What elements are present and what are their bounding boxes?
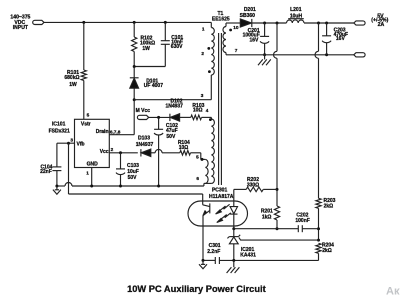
wire secondary ground rail [203,259,215,261]
svg-text:1W: 1W [69,82,77,88]
transformer secondary winding pins 10-7 [225,23,227,27]
wire opto emitter to ground rail [202,226,204,260]
svg-text:Vstr: Vstr [81,121,91,127]
wire L201 to output [304,22,354,24]
ground symbol under opto [202,260,204,264]
polarity dot primary upper [207,47,210,50]
wire KA431 ref [239,237,319,240]
svg-text:4: 4 [206,108,209,113]
svg-text:2: 2 [201,51,204,56]
wire feedback sense line 1 [276,23,278,51]
node C203/return wire [325,53,328,56]
wire drain to transformer pin 3 [134,99,211,101]
svg-text:2A: 2A [378,22,385,28]
svg-text:IC101: IC101 [52,121,66,127]
node C201/return wire [263,53,266,56]
svg-text:1: 1 [86,170,89,175]
wire Vcc pin 2 [109,152,138,154]
wire secondary return [226,54,354,56]
svg-text:2kΩ: 2kΩ [322,248,332,254]
svg-text:630V: 630V [171,44,183,50]
svg-text:EE1625: EE1625 [212,16,230,22]
svg-text:Drain: Drain [96,129,109,135]
svg-text:D103: D103 [138,135,150,141]
wire D201 to L201 [252,22,287,24]
svg-text:1N4937: 1N4937 [136,142,154,148]
node top rail / R102 [133,21,136,24]
svg-text:2.2nF: 2.2nF [207,249,220,255]
node R201/C202 wire [276,227,279,230]
wire IC101 pin 1 to ground [91,168,93,187]
svg-text:16V: 16V [336,36,346,42]
svg-text:1N4937: 1N4937 [165,103,183,109]
svg-text:Vfb: Vfb [77,141,85,147]
svg-text:Vcc: Vcc [100,149,109,155]
wire hop over C102 line [155,149,162,152]
svg-text:6: 6 [196,176,199,181]
node rail/R203 line [317,22,320,25]
polarity dot secondary [229,29,232,32]
node LED cathode / comp net [232,227,235,230]
svg-text:50V: 50V [128,175,138,181]
node divider/ref wire [317,239,320,242]
transformer aux winding pins 4-5-6 [210,117,212,119]
svg-text:10Ω: 10Ω [193,108,203,114]
svg-text:50V: 50V [166,134,176,140]
ground rail primary [57,185,65,187]
node R202/R201 junction [276,188,279,191]
svg-text:3: 3 [70,137,73,142]
wire M Vcc node [149,116,170,118]
svg-text:UF 4007: UF 4007 [144,83,163,89]
svg-text:10: 10 [233,25,239,30]
node drain junction [133,98,136,101]
node ground rail left end [55,185,58,188]
ground symbol under C104 [56,186,58,190]
svg-text:1W: 1W [142,46,150,52]
svg-text:INPUT: INPUT [13,25,29,31]
terminal output return [354,53,365,57]
svg-text:KA431: KA431 [240,252,256,258]
opto light arrows [218,204,230,212]
svg-text:L201: L201 [290,7,302,13]
opto phototransistor [209,203,211,213]
wire R104 to pin 5 tap [200,153,202,160]
node rail/feedback line [276,22,279,25]
polarity dot aux [209,118,212,121]
node divider/C202 [317,227,320,230]
wire feedback sense line 2 [318,23,320,51]
polarity dot primary lower [208,70,211,73]
node C103/ground rail [119,185,122,188]
ground symbol under KA431 [233,260,235,267]
node top rail / R101 [82,21,85,24]
svg-text:680kΩ: 680kΩ [64,75,79,81]
svg-text:10W PC Auxiliary Power Circuit: 10W PC Auxiliary Power Circuit [127,284,266,294]
svg-text:GND: GND [87,162,99,168]
svg-text:2: 2 [111,147,114,152]
svg-text:FSDx321: FSDx321 [49,128,70,134]
svg-text:10Ω: 10Ω [179,145,189,151]
svg-text:2kΩ: 2kΩ [324,203,334,209]
svg-text:3: 3 [201,93,204,98]
wire top rail primary [44,21,211,23]
wire Vfb pin 3 [57,142,75,144]
svg-text:22nF: 22nF [40,169,52,175]
svg-text:5: 5 [87,113,90,118]
svg-text:M Vcc: M Vcc [136,108,151,114]
node aux winding pin 5 [201,158,204,161]
wire C202 net to opto [234,228,277,230]
svg-text:PC301: PC301 [212,187,228,193]
svg-text:100nF: 100nF [295,218,309,224]
node pin1/ground rail [90,185,93,188]
node MVcc/C102 [157,116,160,119]
node top rail / C101 [164,21,167,24]
node snubber junction [133,65,136,68]
wire Vfb to optocoupler [69,193,203,195]
terminal 5V output [354,21,365,25]
svg-text:1: 1 [202,27,205,32]
node rail/C201 [263,22,266,25]
transformer primary winding pins 1-2-3 [210,22,212,27]
wire Vfb feedback drop [68,143,70,194]
ground symbol under C201 [264,55,266,60]
node Vcc/C103 [119,151,122,154]
node KA431 anode / ground rail [232,259,235,262]
wire R202 to opto LED [233,189,235,206]
svg-text:16V: 16V [249,37,259,43]
node rail/C203 [325,22,328,25]
wire R102/C101 bottom junction [134,66,165,68]
svg-text:H11A817A: H11A817A [209,194,234,200]
opto LED [230,207,237,214]
node C102/ground rail [157,185,160,188]
wire secondary rail pin10 to D201 [226,22,240,24]
svg-text:6,7,8: 6,7,8 [110,129,121,134]
transformer core [218,33,220,185]
svg-text:Актив: Актив [386,285,400,297]
svg-text:SB360: SB360 [240,13,256,19]
op-amp U IC101 FSDx321 box [75,119,110,167]
node emitter/ground [202,259,205,262]
svg-text:1kΩ: 1kΩ [262,214,272,220]
svg-text:7: 7 [235,48,238,53]
node Vfb tee [67,142,70,145]
wire drain stub into IC101 [109,134,134,136]
wire drain riser to IC [133,100,135,135]
svg-text:5: 5 [196,154,199,159]
